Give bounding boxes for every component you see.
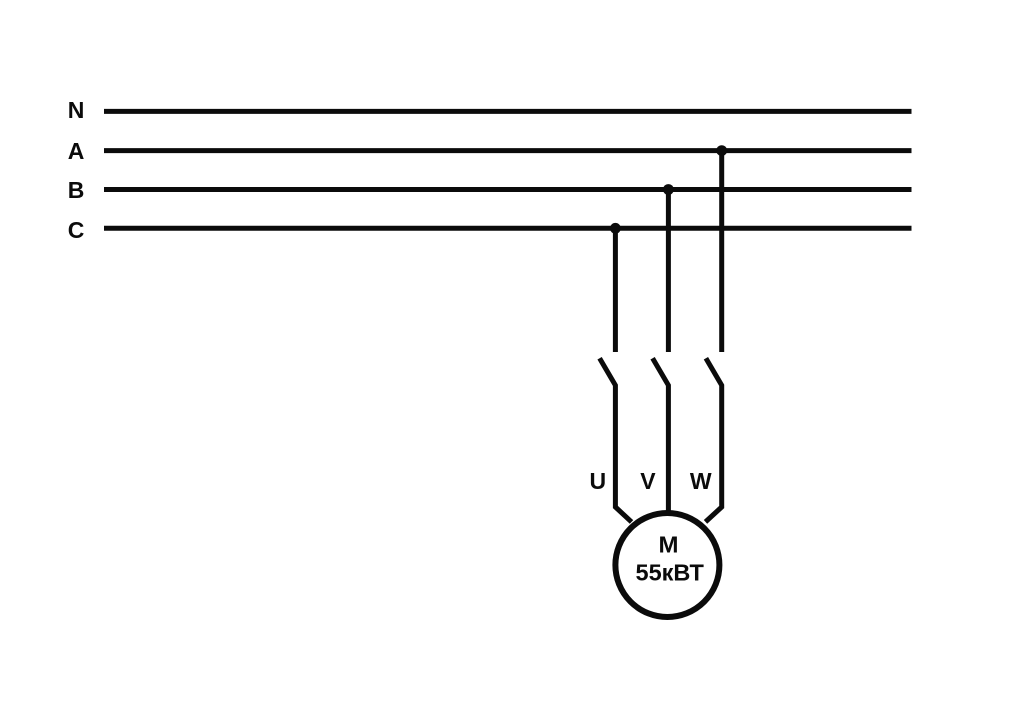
wire bus A <box>104 148 912 153</box>
svg-text:A: A <box>68 138 85 164</box>
junction node on C <box>610 223 621 234</box>
junction node on B <box>663 184 674 195</box>
wire bus C <box>104 226 912 231</box>
switch S2 blade and wire V to motor <box>653 358 669 514</box>
wire phase A drop to W <box>719 151 724 352</box>
svg-text:B: B <box>68 177 85 203</box>
wire phase C drop to U <box>613 228 618 352</box>
svg-text:C: C <box>68 217 85 243</box>
wire phase B drop to V <box>666 190 671 353</box>
svg-text:V: V <box>640 468 656 494</box>
svg-text:W: W <box>690 468 712 494</box>
switch S3 blade and wire W to motor <box>706 358 722 522</box>
junction node on A <box>716 145 727 156</box>
svg-text:N: N <box>68 97 85 123</box>
switch S1 blade and wire U to motor <box>600 358 632 522</box>
motor M1 circle <box>615 513 719 617</box>
svg-text:U: U <box>589 468 606 494</box>
svg-text:55кВТ: 55кВТ <box>636 560 705 586</box>
svg-text:M: M <box>659 532 679 558</box>
wire bus B <box>104 187 912 192</box>
wire bus N <box>104 109 912 114</box>
